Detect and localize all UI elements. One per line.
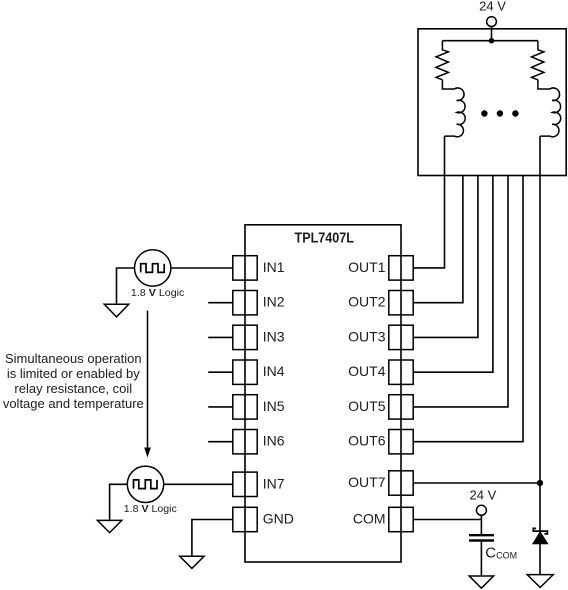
relay bank box bbox=[418, 29, 566, 176]
wire: right relay down to zener node bbox=[539, 136, 541, 531]
inductor: right relay coil bbox=[538, 80, 561, 137]
svg-text:1.8 V Logic: 1.8 V Logic bbox=[124, 503, 177, 515]
wire: V1 to IN1 bbox=[171, 267, 233, 269]
svg-text:IN4: IN4 bbox=[263, 363, 285, 379]
svg-text:IN5: IN5 bbox=[263, 398, 285, 414]
svg-text:OUT2: OUT2 bbox=[348, 294, 386, 310]
wire: IN3 stub bbox=[208, 336, 233, 338]
wire: zener to ground bbox=[539, 544, 541, 575]
wire: COM pin to CCOM node bbox=[413, 519, 481, 521]
pin OUT7 bbox=[389, 471, 413, 495]
wire: V2 to IN7 bbox=[164, 483, 233, 485]
svg-text:IN2: IN2 bbox=[263, 294, 285, 310]
pin IN4 bbox=[233, 360, 257, 384]
pin IN7 bbox=[233, 472, 257, 496]
wire: OUT5 to relay bank bbox=[413, 176, 508, 407]
wire: GND pin to ground bbox=[192, 520, 233, 557]
svg-text:IN6: IN6 bbox=[263, 433, 285, 449]
inductor: left relay coil bbox=[442, 80, 465, 137]
svg-text:COM: COM bbox=[353, 511, 386, 527]
svg-text:OUT3: OUT3 bbox=[348, 328, 386, 344]
annotation arrow bbox=[144, 311, 151, 458]
svg-text:TPL7407L: TPL7407L bbox=[295, 230, 355, 247]
svg-text:24 V: 24 V bbox=[470, 488, 497, 503]
wire: OUT3 to relay bank bbox=[413, 176, 478, 338]
pin IN1 bbox=[233, 256, 257, 280]
terminal: 24V supply COM bbox=[476, 505, 486, 515]
ground: V1 bbox=[104, 304, 128, 317]
svg-text:OUT7: OUT7 bbox=[348, 474, 386, 490]
svg-text:is limited or enabled by: is limited or enabled by bbox=[7, 366, 140, 381]
ellipsis: additional relays bbox=[481, 110, 518, 116]
wire: OUT6 to relay bank bbox=[413, 176, 523, 442]
capacitor CCOM bbox=[469, 535, 494, 540]
pin OUT2 bbox=[389, 291, 413, 315]
pin OUT6 bbox=[389, 430, 413, 454]
junction: relay supply node bbox=[489, 38, 495, 44]
pin IN6 bbox=[233, 430, 257, 454]
pin IN5 bbox=[233, 395, 257, 419]
wire: capacitor to ground bbox=[480, 542, 482, 576]
pin OUT4 bbox=[389, 360, 413, 384]
source V1: 1.8V logic pulse generator bbox=[135, 250, 171, 286]
ground: CCOM bbox=[469, 576, 493, 588]
pin IN3 bbox=[233, 325, 257, 349]
ground: V2 bbox=[97, 520, 121, 532]
resistor: left relay coil resistance bbox=[436, 41, 448, 80]
svg-text:IN3: IN3 bbox=[263, 328, 285, 344]
wire: OUT2 to relay bank bbox=[413, 176, 463, 303]
svg-text:CCOM: CCOM bbox=[485, 544, 517, 561]
pin COM bbox=[389, 507, 413, 531]
wire: 24V terminal to relay rail bbox=[491, 27, 493, 41]
wire: left relay to OUT1 bbox=[413, 136, 444, 268]
wire: V2 to ground bbox=[110, 484, 128, 520]
wire: V1 to ground bbox=[117, 268, 135, 304]
wire: IN4 stub bbox=[208, 371, 233, 373]
pin OUT1 bbox=[389, 256, 413, 280]
svg-text:OUT1: OUT1 bbox=[348, 259, 386, 275]
wire: relay supply rail bbox=[442, 40, 538, 42]
diode D1: zener clamp bbox=[533, 528, 548, 543]
pin OUT5 bbox=[389, 395, 413, 419]
svg-text:IN1: IN1 bbox=[263, 259, 285, 275]
svg-text:1.8 V Logic: 1.8 V Logic bbox=[131, 287, 185, 299]
annotation note text bbox=[3, 351, 144, 411]
source V2: 1.8V logic pulse generator bbox=[127, 466, 163, 502]
svg-text:relay resistance, coil: relay resistance, coil bbox=[14, 381, 132, 396]
junction: OUT7 zener node bbox=[537, 480, 543, 486]
svg-text:IN7: IN7 bbox=[263, 475, 285, 491]
svg-text:OUT6: OUT6 bbox=[348, 433, 386, 449]
svg-text:GND: GND bbox=[263, 511, 294, 527]
pin OUT3 bbox=[389, 325, 413, 349]
wire: IN5 stub bbox=[208, 406, 233, 408]
terminal: 24V supply top bbox=[487, 17, 497, 27]
svg-text:OUT4: OUT4 bbox=[348, 363, 386, 379]
wire: OUT4 to relay bank bbox=[413, 176, 493, 373]
wire: IN2 stub bbox=[208, 302, 233, 304]
pin GND bbox=[233, 507, 257, 531]
ground: zener bbox=[527, 575, 553, 588]
ground: GND pin bbox=[180, 556, 204, 568]
svg-text:Simultaneous operation: Simultaneous operation bbox=[5, 351, 142, 366]
wire: COM terminal to capacitor bbox=[480, 515, 482, 534]
svg-text:voltage and temperature: voltage and temperature bbox=[3, 396, 144, 411]
wire: IN6 stub bbox=[208, 441, 233, 443]
svg-text:24 V: 24 V bbox=[479, 0, 506, 14]
resistor: right relay coil resistance bbox=[532, 41, 544, 80]
pin IN2 bbox=[233, 291, 257, 315]
wire: OUT7 to zener node bbox=[413, 482, 540, 484]
svg-text:OUT5: OUT5 bbox=[348, 398, 386, 414]
op IC U1 TPL7407L body bbox=[245, 225, 401, 562]
